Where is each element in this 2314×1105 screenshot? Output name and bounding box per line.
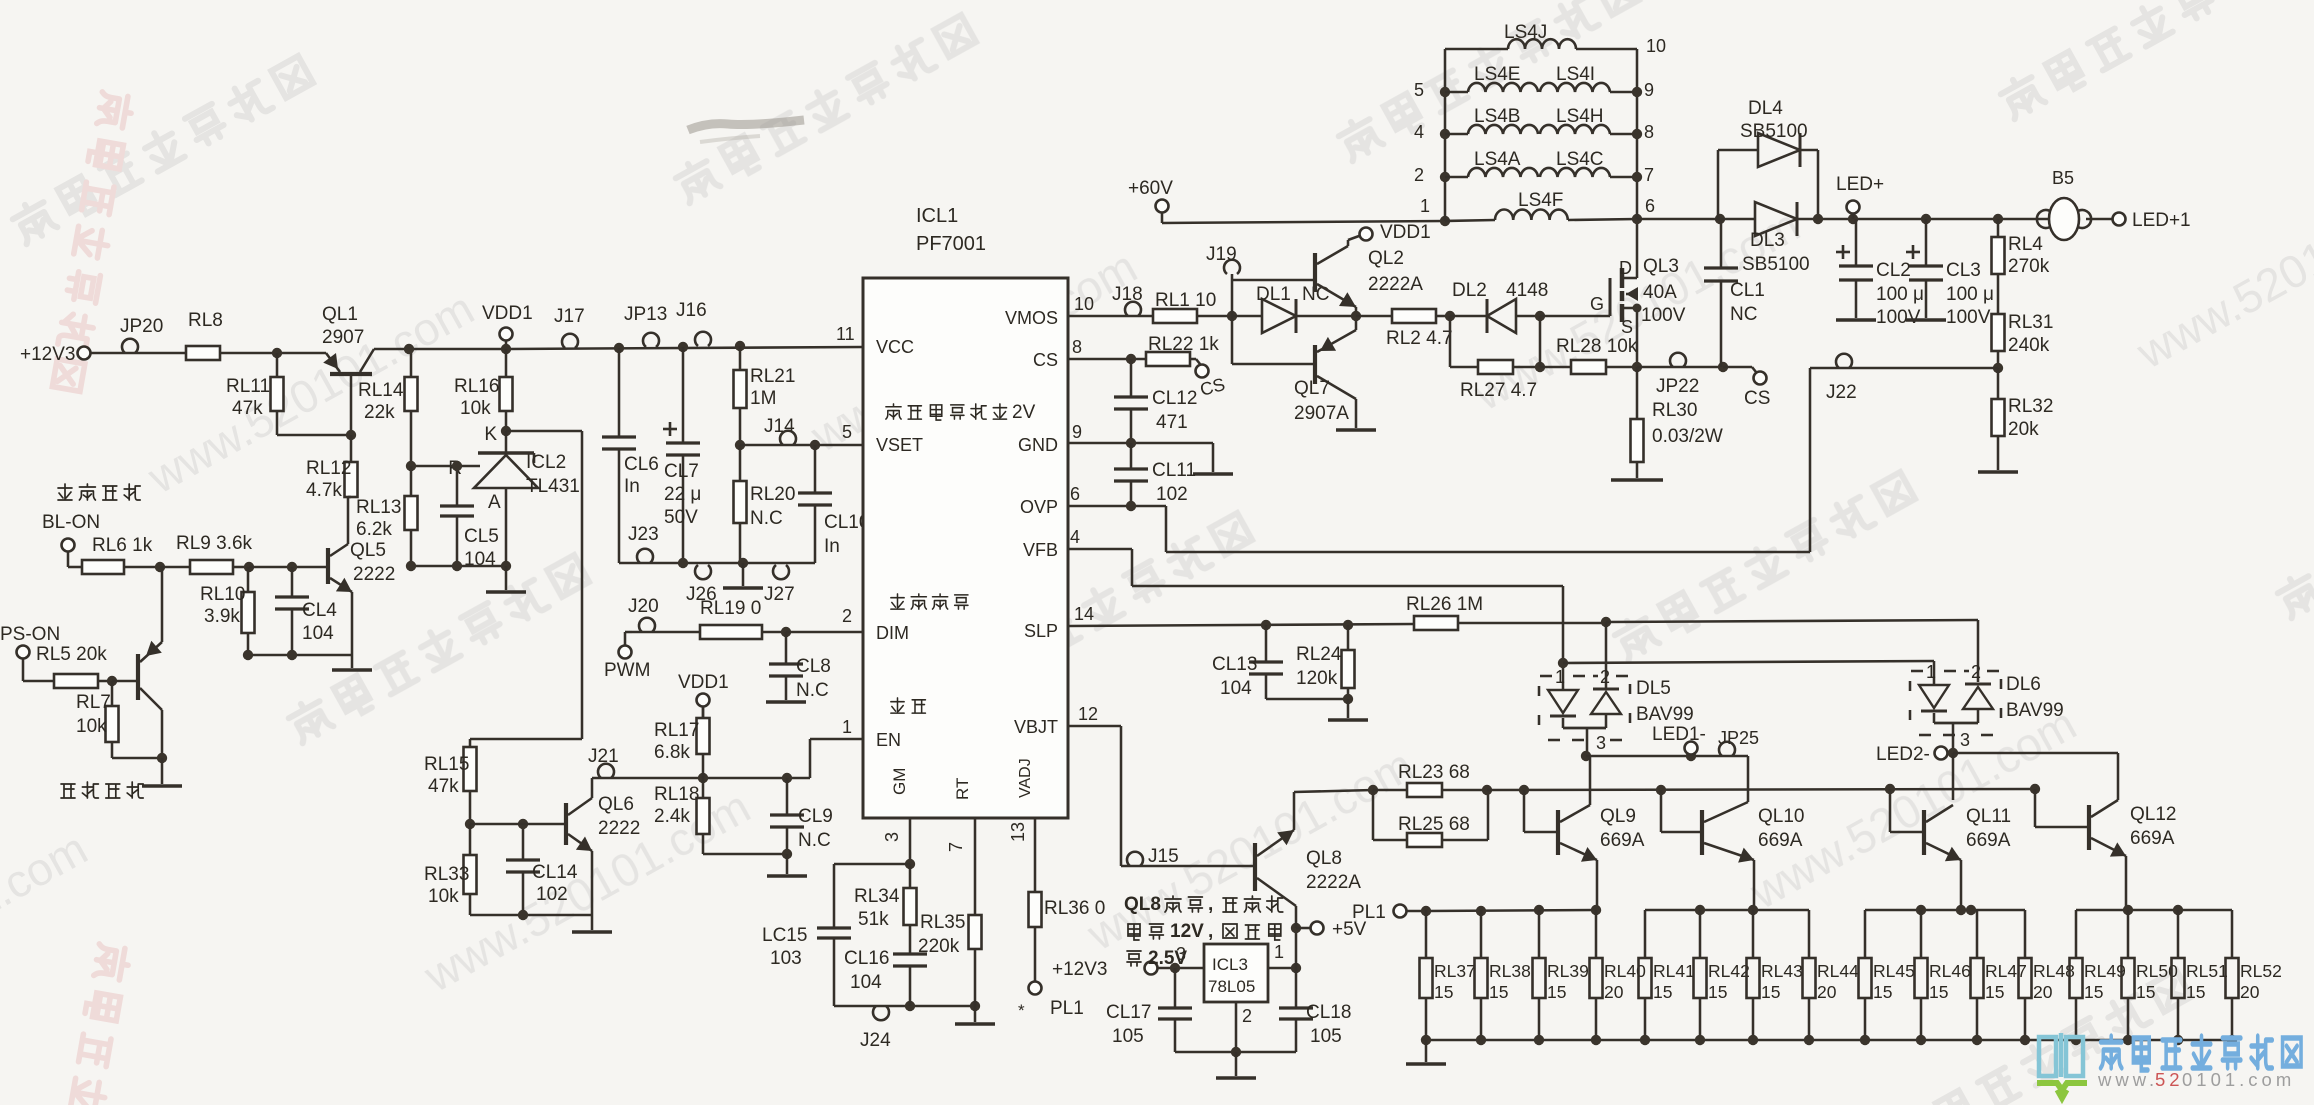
jumper J26	[686, 565, 717, 605]
label 开机启动	[61, 782, 143, 798]
resistor RL39	[1533, 910, 1589, 1040]
resistor RL28 10k	[1540, 336, 1638, 374]
wire base bus	[1487, 789, 2035, 790]
svg-text:4: 4	[1414, 122, 1424, 142]
svg-text:6: 6	[1070, 484, 1080, 504]
capacitor CL9	[770, 778, 833, 854]
svg-text:669A: 669A	[2130, 828, 2175, 849]
svg-text:JP13: JP13	[624, 304, 667, 325]
svg-text:CL18: CL18	[1306, 1002, 1351, 1023]
terminal VDD1 QL2	[1360, 222, 1431, 243]
resistor RL48	[2019, 910, 2075, 1040]
svg-text:DL5: DL5	[1636, 678, 1671, 699]
transistor QL12	[2030, 784, 2177, 910]
svg-text:104: 104	[850, 972, 882, 993]
resistor RL47	[1971, 910, 2027, 1040]
svg-text:CL13: CL13	[1212, 654, 1257, 675]
terminal LED+	[1836, 174, 1884, 224]
svg-text:LS4A: LS4A	[1474, 149, 1521, 170]
svg-text:JP25: JP25	[1718, 728, 1759, 748]
svg-text:2: 2	[1600, 667, 1610, 687]
node source	[1632, 362, 1642, 372]
node K	[484, 424, 511, 445]
svg-text:4: 4	[1070, 527, 1080, 547]
IC ICL3 78L05	[1176, 942, 1284, 1026]
svg-text:CL11: CL11	[1152, 460, 1196, 481]
svg-text:ICL2: ICL2	[526, 452, 566, 473]
wire bottom J23 bus	[619, 558, 815, 568]
svg-text:J15: J15	[1148, 846, 1179, 867]
jumper J21	[588, 746, 619, 778]
ground ICL2	[486, 566, 526, 592]
pin 2	[842, 606, 852, 626]
resistor RL17	[654, 706, 710, 778]
svg-text:QL12: QL12	[2130, 804, 2176, 825]
terminal CS right	[1723, 367, 1770, 409]
svg-text:22k: 22k	[364, 402, 395, 423]
ground PS-ON stage	[142, 758, 182, 786]
resistor RL41	[1639, 910, 1695, 1040]
wire main HV line	[1637, 218, 2050, 221]
wire J22 net	[1810, 368, 1998, 552]
svg-text:*: *	[1018, 1001, 1025, 1020]
resistor RL11	[226, 353, 284, 435]
svg-text:DL1: DL1	[1256, 284, 1291, 305]
capacitor CL14	[506, 819, 578, 915]
svg-text:RL45: RL45	[1873, 961, 1915, 981]
resistor RL5 20k	[23, 644, 112, 688]
wire RL7 to emitter	[112, 753, 167, 763]
resistor RL16	[454, 349, 513, 431]
svg-text:LED+1: LED+1	[2132, 210, 2191, 231]
svg-text:10: 10	[1074, 294, 1094, 314]
resistor RL25 68	[1373, 790, 1488, 847]
ferrite bead B5	[2037, 168, 2091, 240]
svg-text:2.5V: 2.5V	[1148, 948, 1187, 969]
node LED1- junction	[1581, 751, 1591, 761]
svg-text:669A: 669A	[1600, 830, 1645, 851]
svg-text:EN: EN	[876, 730, 901, 750]
svg-text:GM: GM	[890, 768, 909, 795]
svg-text:LS4J: LS4J	[1504, 22, 1547, 43]
svg-text:RL35: RL35	[920, 912, 965, 933]
svg-text:JP20: JP20	[120, 316, 163, 337]
terminal LED+1	[2086, 210, 2191, 231]
svg-text:0101.com: 0101.com	[2182, 1069, 2295, 1090]
inductor LS4A	[1414, 149, 1538, 185]
pin 13 bottom	[1008, 822, 1028, 842]
svg-text:7: 7	[946, 842, 966, 852]
resistor RL15	[424, 739, 477, 824]
svg-text:15: 15	[1708, 982, 1727, 1002]
svg-text:NC: NC	[1730, 304, 1757, 325]
svg-text:20: 20	[1604, 982, 1624, 1002]
svg-text:5: 5	[842, 422, 852, 442]
svg-text:J21: J21	[588, 746, 619, 767]
node gate junction	[1535, 311, 1545, 321]
svg-text:ICL1: ICL1	[916, 205, 958, 227]
svg-text:RL51: RL51	[2186, 961, 2228, 981]
wire EN lead	[810, 739, 863, 778]
svg-text:102: 102	[1156, 484, 1188, 505]
ground J26 bus	[723, 563, 763, 588]
svg-text:RL2 4.7: RL2 4.7	[1386, 328, 1453, 349]
svg-text:4.7k: 4.7k	[306, 480, 342, 501]
svg-text:K: K	[484, 424, 497, 445]
svg-text:0.03/2W: 0.03/2W	[1652, 426, 1723, 447]
transistor QL7	[1294, 316, 1356, 428]
svg-text:VCC: VCC	[876, 337, 914, 357]
resistor RL37	[1420, 910, 1476, 1040]
terminal +5V	[1311, 919, 1367, 940]
svg-text:9: 9	[1644, 80, 1654, 100]
svg-text:2V: 2V	[1012, 402, 1036, 423]
svg-text:RL28 10k: RL28 10k	[1556, 336, 1638, 357]
svg-text:40A: 40A	[1643, 282, 1677, 303]
svg-text:RL46: RL46	[1929, 961, 1971, 981]
svg-text:4148: 4148	[1506, 280, 1548, 301]
transistor QL1	[322, 304, 374, 435]
resistor RL23 68	[1373, 762, 1487, 797]
svg-text:In: In	[624, 476, 640, 497]
svg-text:CL8: CL8	[796, 656, 831, 677]
node RL27 RL28	[1535, 316, 1545, 372]
resistor RL46	[1915, 910, 1971, 1040]
ground QL7	[1336, 428, 1376, 432]
capacitor CL18	[1279, 968, 1351, 1052]
svg-text:RL16: RL16	[454, 376, 499, 397]
jumper J16	[676, 300, 711, 346]
wire gate	[1540, 315, 1610, 318]
svg-text:RT: RT	[953, 778, 972, 800]
svg-text:RL1 10: RL1 10	[1155, 290, 1216, 311]
svg-text:8: 8	[1644, 122, 1654, 142]
resistor RL14	[358, 344, 418, 466]
node CL12 top	[1126, 354, 1136, 364]
svg-text:J16: J16	[676, 300, 707, 321]
svg-text:CL14: CL14	[532, 862, 578, 883]
svg-text:PWM: PWM	[604, 660, 650, 681]
svg-text:VDD1: VDD1	[678, 672, 729, 693]
svg-text:+12V3: +12V3	[20, 344, 75, 365]
svg-text:15: 15	[1873, 982, 1892, 1002]
svg-text:120k: 120k	[1296, 668, 1338, 689]
inductor LS4H	[1540, 106, 1654, 142]
svg-text:RL47: RL47	[1985, 961, 2027, 981]
svg-text:6.2k: 6.2k	[356, 519, 392, 540]
pin 6	[1070, 484, 1080, 504]
svg-text:10k: 10k	[460, 398, 491, 419]
wire VSET	[740, 440, 863, 450]
svg-text:QL6: QL6	[598, 794, 634, 815]
jumper JP22	[1656, 353, 1699, 397]
wire source to CS	[1637, 366, 1723, 369]
wire LED1- line	[1586, 751, 1748, 761]
svg-text:CL9: CL9	[798, 806, 833, 827]
capacitor CL2	[1836, 219, 1924, 328]
svg-text:11: 11	[836, 324, 855, 344]
jumper JP13	[624, 304, 667, 347]
terminal BL-ON	[42, 512, 100, 567]
svg-text:RL19 0: RL19 0	[700, 598, 761, 619]
capacitor CL7	[663, 342, 701, 563]
svg-text:RL11: RL11	[226, 376, 270, 397]
svg-text:J24: J24	[860, 1030, 891, 1051]
wire inductor right bus	[1636, 49, 1639, 219]
terminal PL1 via RL36	[1018, 982, 1084, 1021]
diode DL4 SB5100	[1718, 98, 1823, 224]
svg-text:52: 52	[2155, 1069, 2184, 1090]
resistor RL52	[2226, 910, 2282, 1040]
wire QL8 collector to RL23	[1294, 790, 1373, 792]
ground CL2	[1836, 318, 1876, 322]
svg-text:15: 15	[1761, 982, 1780, 1002]
resistor RL22 1k	[1146, 334, 1219, 366]
resistor RL51	[2172, 910, 2228, 1040]
resistor RL6 1k	[68, 535, 160, 574]
resistor RL34	[854, 864, 917, 954]
svg-text:,: ,	[1208, 921, 1213, 942]
pin 10	[1074, 294, 1094, 314]
resistor RL1 10	[1153, 290, 1232, 323]
svg-text:RL8: RL8	[188, 310, 223, 331]
svg-text:13: 13	[1008, 822, 1028, 842]
capacitor CL4	[275, 567, 337, 655]
svg-text:SB5100: SB5100	[1742, 254, 1810, 275]
terminal LED1-	[1652, 724, 1706, 755]
transistor Q-PSON	[138, 567, 162, 758]
svg-text:3: 3	[882, 832, 902, 842]
transistor QL8	[1255, 792, 1361, 928]
svg-text:9: 9	[1072, 422, 1082, 442]
resistor RL7	[76, 681, 119, 758]
ground CL8	[766, 700, 806, 704]
svg-text:RL37: RL37	[1434, 961, 1476, 981]
node RL23 right	[1482, 785, 1492, 795]
node DL5 pin1	[1558, 658, 1568, 668]
node RL5 right	[107, 676, 117, 686]
svg-text:LS4B: LS4B	[1474, 106, 1520, 127]
node RL14 bottom	[406, 461, 416, 471]
MOSFET QL3	[1590, 219, 1686, 367]
svg-text:S: S	[1621, 317, 1633, 337]
svg-text:RL36 0: RL36 0	[1044, 898, 1105, 919]
svg-text:15: 15	[1929, 982, 1948, 1002]
svg-text:2: 2	[842, 606, 852, 626]
svg-text:471: 471	[1156, 412, 1188, 433]
wire GND pin9	[1068, 438, 1213, 472]
svg-text:RL31: RL31	[2008, 312, 2053, 333]
svg-text:LS4H: LS4H	[1556, 106, 1604, 127]
svg-text:J22: J22	[1826, 382, 1857, 403]
jumper J15	[1127, 846, 1179, 867]
svg-text:1: 1	[1274, 942, 1284, 962]
svg-text:15: 15	[2084, 982, 2103, 1002]
wire J21 line	[592, 773, 810, 783]
svg-text:J19: J19	[1206, 244, 1237, 265]
resistor RL27 4.7	[1450, 316, 1540, 401]
svg-text:RL25 68: RL25 68	[1398, 814, 1470, 835]
node QL6 base left	[465, 819, 475, 829]
jumper JP20	[120, 316, 163, 353]
svg-text:J17: J17	[554, 306, 585, 327]
wire bus segment4	[2076, 905, 2232, 915]
svg-text:SB5100: SB5100	[1740, 121, 1808, 142]
svg-text:B5: B5	[2052, 168, 2074, 188]
label 背光启动	[58, 484, 140, 500]
node RL11 top	[272, 348, 282, 358]
svg-text:20: 20	[2033, 982, 2053, 1002]
node pin6	[1632, 196, 1655, 224]
svg-text:14: 14	[1074, 604, 1094, 624]
wire LC15 bottom bus	[834, 1001, 980, 1011]
svg-text:3: 3	[1960, 730, 1970, 750]
resistor RL20	[734, 445, 796, 563]
svg-text:QL11: QL11	[1966, 806, 2011, 827]
svg-text:QL2: QL2	[1368, 248, 1404, 269]
svg-text:RL33: RL33	[424, 864, 469, 885]
capacitor CL13	[1212, 625, 1283, 699]
svg-text:10k: 10k	[428, 886, 459, 907]
diode DL2 4148	[1450, 280, 1548, 333]
node OVP divider	[1993, 363, 2003, 373]
svg-text:www.520101.com: www.520101.com	[1078, 739, 1422, 961]
node VSET	[735, 440, 745, 450]
ground QL5	[332, 655, 372, 670]
resistor RL44	[1803, 910, 1860, 1040]
svg-text:RL41: RL41	[1653, 961, 1695, 981]
capacitor CL10	[798, 445, 869, 563]
svg-text:QL9: QL9	[1600, 806, 1636, 827]
jumper J20	[628, 596, 659, 632]
jumper J27	[764, 565, 795, 605]
terminal VDD1 main	[482, 303, 533, 354]
svg-text:15: 15	[2136, 982, 2155, 1002]
capacitor CL3	[1906, 214, 1994, 328]
resistor RL26 1M	[1406, 594, 1606, 630]
node RL23 left	[1368, 785, 1378, 840]
jumper J18	[1112, 284, 1143, 316]
svg-text:LED1-: LED1-	[1652, 724, 1706, 745]
wire CS pin8	[1068, 358, 1146, 361]
svg-text:RL6 1k: RL6 1k	[92, 535, 153, 556]
svg-text:7: 7	[1644, 165, 1654, 185]
svg-text:RL26 1M: RL26 1M	[1406, 594, 1483, 615]
wire +12V3 to QL1	[90, 352, 326, 355]
svg-text:22 μ: 22 μ	[664, 484, 701, 505]
resistor RL30	[1631, 367, 1723, 478]
capacitor CL16	[844, 948, 927, 1006]
svg-text:50V: 50V	[664, 507, 698, 528]
svg-text:BL-ON: BL-ON	[42, 512, 100, 533]
wire OVP net	[1068, 501, 1810, 552]
dual diode DL6 BAV99	[1910, 662, 2064, 753]
capacitor LC15	[762, 925, 851, 1006]
svg-text:J27: J27	[764, 584, 795, 605]
svg-text:12: 12	[1078, 704, 1098, 724]
svg-text:104: 104	[1220, 678, 1252, 699]
svg-text:2: 2	[1414, 165, 1424, 185]
resistor RL10	[200, 567, 255, 655]
resistor RL45	[1859, 910, 1915, 1040]
svg-text:CL16: CL16	[844, 948, 889, 969]
svg-text:RL49: RL49	[2084, 961, 2126, 981]
svg-text:12V: 12V	[1170, 921, 1204, 942]
svg-text:PF7001: PF7001	[916, 233, 986, 255]
pin 4	[1070, 527, 1080, 547]
svg-text:PS-ON: PS-ON	[0, 624, 60, 645]
pin 8	[1072, 337, 1082, 357]
inductor LS4I	[1540, 64, 1654, 100]
svg-text:105: 105	[1310, 1026, 1342, 1047]
svg-text:51k: 51k	[858, 909, 889, 930]
transistor QL10	[1656, 785, 1805, 910]
svg-text:15: 15	[1489, 982, 1508, 1002]
resistor RL42	[1694, 910, 1750, 1040]
svg-text:105: 105	[1112, 1026, 1144, 1047]
svg-text:RL44: RL44	[1817, 961, 1859, 981]
wire VFB to DL6 pin1	[1563, 661, 1934, 679]
svg-text:2222: 2222	[598, 818, 640, 839]
node CL1 bottom	[1718, 362, 1728, 372]
svg-text:3: 3	[1596, 733, 1606, 753]
svg-text:+12V3: +12V3	[1052, 959, 1107, 980]
svg-text:RL20: RL20	[750, 484, 795, 505]
wire RL11 to base node	[277, 430, 356, 440]
terminal +60V	[1128, 178, 1445, 223]
svg-text:D: D	[1619, 258, 1632, 278]
wire bus segment2	[1645, 905, 1809, 915]
svg-text:BAV99: BAV99	[1636, 704, 1694, 725]
transistor QL9	[1519, 785, 1645, 910]
svg-text:CL17: CL17	[1106, 1002, 1151, 1023]
svg-text:TL431: TL431	[526, 476, 580, 497]
svg-text:RL15: RL15	[424, 754, 469, 775]
node +5V	[1291, 923, 1311, 933]
ground QL6	[572, 915, 612, 932]
svg-text:LS4I: LS4I	[1556, 64, 1595, 85]
svg-text:BAV99: BAV99	[2006, 700, 2064, 721]
jumper J19	[1206, 244, 1240, 274]
pin 7 bottom	[946, 842, 966, 852]
svg-text:VMOS: VMOS	[1005, 308, 1058, 328]
svg-text:QL1: QL1	[322, 304, 358, 325]
wire RL18 CL9 bottom	[703, 849, 792, 859]
svg-text:RL14: RL14	[358, 380, 404, 401]
terminal LED2-	[1876, 744, 1948, 765]
svg-text:2222A: 2222A	[1368, 274, 1423, 295]
ground CL9	[767, 854, 807, 876]
svg-text:2.4k: 2.4k	[654, 806, 690, 827]
svg-text:8: 8	[1072, 337, 1082, 357]
svg-text:CL4: CL4	[302, 600, 337, 621]
wire QL5 emitter bus	[243, 650, 352, 660]
pin 5	[842, 422, 852, 442]
wire QL1 to VCC bus	[374, 347, 863, 349]
svg-text:QL5: QL5	[350, 540, 386, 561]
capacitor CL11	[1114, 443, 1196, 506]
resistor RL9 3.6k	[160, 533, 253, 574]
svg-text:PL1: PL1	[1352, 902, 1386, 923]
terminal VDD1 at RL17	[678, 672, 729, 718]
svg-text:CL5: CL5	[464, 526, 499, 547]
jumper J17	[554, 306, 585, 348]
svg-text:RL52: RL52	[2240, 961, 2282, 981]
resistor RL19 0	[632, 598, 786, 639]
wire K net	[470, 431, 582, 739]
jumper JP25	[1718, 728, 1759, 756]
node RL9 right	[244, 562, 254, 572]
